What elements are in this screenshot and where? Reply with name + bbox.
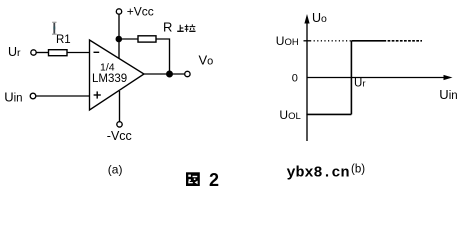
svg-text:Uin: Uin bbox=[4, 90, 22, 105]
curve UOH dashed continuation bbox=[384, 40, 423, 42]
label 拉 (pull-up hanzi 2) bbox=[185, 24, 196, 32]
svg-text:ybx8.cn: ybx8.cn bbox=[287, 165, 350, 182]
axis Uo (vertical) bbox=[306, 20, 308, 141]
svg-text:(b): (b) bbox=[351, 163, 365, 175]
svg-text:0: 0 bbox=[292, 72, 298, 84]
label 上 (pull-up hanzi 1) bbox=[177, 25, 184, 32]
arrow x-axis bbox=[444, 75, 453, 80]
op-amp U1 1/4 LM339 triangle bbox=[90, 40, 145, 110]
svg-text:UOH: UOH bbox=[276, 34, 299, 48]
wire Ur terminal to R1 bbox=[36, 52, 48, 54]
wire pull-up resistor to output corner bbox=[156, 39, 170, 74]
node -Vcc terminal bbox=[117, 122, 122, 127]
svg-text:-Vcc: -Vcc bbox=[107, 129, 132, 143]
svg-text:Uo: Uo bbox=[312, 11, 327, 25]
svg-text:Vo: Vo bbox=[199, 53, 214, 68]
svg-text:LM339: LM339 bbox=[92, 73, 127, 85]
resistor R pull-up bbox=[138, 36, 156, 42]
wire R1 to inverting input bbox=[67, 52, 89, 54]
curve UOL segment bbox=[306, 113, 351, 115]
node +Vcc terminal bbox=[116, 9, 121, 14]
junction output node bbox=[167, 71, 173, 77]
tick UOH on axis bbox=[304, 40, 311, 42]
svg-text:Ur: Ur bbox=[8, 45, 21, 59]
curve UOH solid segment bbox=[351, 40, 383, 42]
arrow y-axis bbox=[304, 14, 309, 24]
node Uin input terminal bbox=[30, 93, 36, 99]
svg-text:UOL: UOL bbox=[279, 108, 300, 122]
resistor R1 bbox=[49, 50, 68, 56]
svg-text:Ur: Ur bbox=[354, 78, 365, 90]
node Ur input terminal bbox=[31, 50, 36, 55]
label I (current) bbox=[52, 22, 57, 34]
svg-text:1/4: 1/4 bbox=[100, 62, 115, 74]
pin minus sign (inverting input) bbox=[94, 51, 100, 53]
wire +Vcc supply to op-amp bbox=[118, 14, 120, 58]
svg-text:+Vcc: +Vcc bbox=[127, 5, 154, 19]
svg-text:R: R bbox=[163, 20, 172, 35]
label 图 (caption hanzi) bbox=[186, 172, 200, 186]
curve step vertical at Ur bbox=[350, 41, 352, 115]
svg-text:R1: R1 bbox=[56, 34, 71, 46]
svg-text:2: 2 bbox=[209, 170, 219, 190]
pin plus sign (non-inverting input) bbox=[94, 94, 101, 96]
svg-text:Uin: Uin bbox=[439, 87, 457, 102]
graph axes bbox=[307, 20, 449, 141]
wire Uin terminal to non-inverting input bbox=[36, 95, 89, 97]
junction +Vcc / pull-up bbox=[116, 36, 121, 41]
dotted leader UOH to step bbox=[310, 40, 351, 42]
wire -Vcc pin bbox=[119, 91, 121, 122]
node Vo output terminal bbox=[185, 71, 190, 76]
axis Uin (horizontal) bbox=[307, 77, 449, 79]
wire op-amp output to Vo bbox=[143, 73, 185, 75]
wire junction to pull-up resistor bbox=[119, 38, 138, 40]
svg-text:(a): (a) bbox=[108, 163, 123, 177]
